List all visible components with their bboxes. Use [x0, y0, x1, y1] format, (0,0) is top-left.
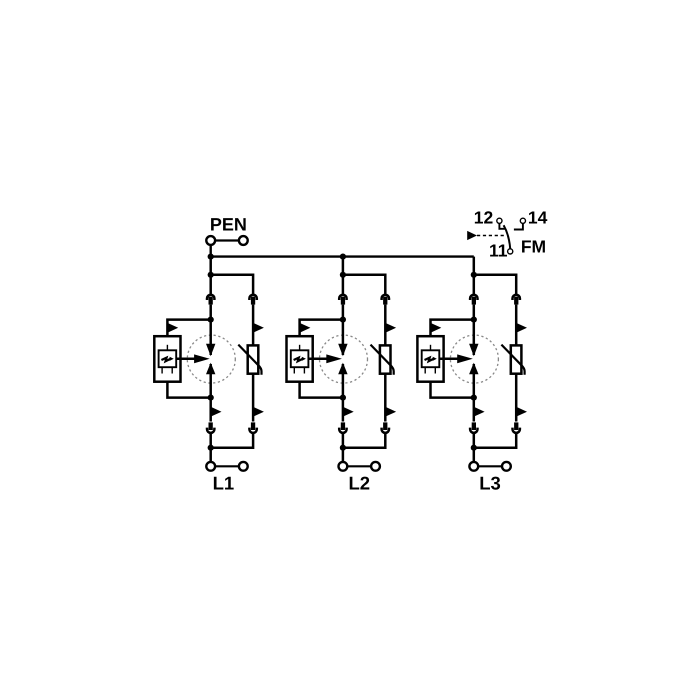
- wire: L3 main column pin to spark-gap node: [473, 305, 476, 320]
- wire: varistor column upper lead: [252, 305, 255, 346]
- FM contact point 11: [508, 249, 513, 254]
- junction: L3 sub-node: [471, 272, 477, 278]
- wire: L1 branch to varistor column: [211, 275, 253, 295]
- varistor (L2) diagonal stroke: [371, 345, 394, 375]
- wire: L1 drop from bus to sub-junction: [209, 257, 212, 275]
- junction: L1 sub-node: [208, 272, 214, 278]
- wire: L2 main column to top plug: [342, 275, 345, 295]
- wire: L1 main column to top plug: [209, 275, 212, 295]
- FM moving contact blade: [504, 225, 511, 248]
- wire: varistor column return to bottom junction: [474, 433, 516, 447]
- wire: L3 branch to varistor column: [474, 275, 516, 295]
- varistor (L3) body: [511, 345, 522, 373]
- junction: bus node L2 branch: [340, 254, 346, 260]
- terminal L3 (left circle): [469, 462, 478, 471]
- plug-in disconnect contact (bottom, L2 main column): [339, 422, 346, 433]
- lightning-bolt symbol in trigger element (L3): [425, 357, 437, 362]
- trigger element bottom leads: [425, 367, 435, 373]
- varistor (L1) diagonal stroke: [238, 345, 261, 375]
- wire: PEN bus: [211, 255, 474, 257]
- spark gap (L3): upper electrode triangle: [469, 344, 478, 357]
- wire: spark gap upper electrode lead: [473, 320, 476, 355]
- terminal L2 (right circle): [371, 462, 380, 471]
- junction: bus node L1 branch: [208, 254, 214, 260]
- wire: L3 main column to top plug: [473, 275, 476, 295]
- wire: L2 main column to bottom junction: [342, 433, 345, 447]
- plug-in disconnect contact (bottom, L3 main column): [470, 422, 477, 433]
- trigger element (L1) inner box: [159, 350, 177, 367]
- plug-in disconnect contact (top, L1 varistor column): [249, 295, 256, 305]
- trigger element bottom leads: [294, 367, 304, 373]
- svg-text:L1: L1: [213, 472, 235, 493]
- plug-in disconnect contact (bottom, L2 varistor column): [382, 422, 389, 433]
- lightning-bolt symbol in trigger element (L2): [294, 357, 306, 362]
- wire: L1 trigger loop top + left side: [167, 320, 210, 337]
- FM fixed contact 14 bracket: [514, 224, 523, 230]
- svg-text:11: 11: [489, 241, 508, 261]
- trigger element top lead: [430, 345, 432, 351]
- wire: varistor column return to bottom junction: [211, 433, 253, 447]
- FM fixed contact 12 bracket: [499, 224, 504, 229]
- spark gap (L2): lower electrode triangle: [338, 363, 347, 375]
- trigger arrow to spark gap (L1): [176, 354, 210, 363]
- wire: varistor column lower lead: [384, 374, 387, 422]
- junction: L1 trigger-loop bottom node: [208, 395, 214, 401]
- thermal disconnector flag (L1 main column, bottom): [211, 407, 222, 417]
- wire: L3 stem to terminal: [473, 448, 476, 462]
- thermal disconnector flag (L3 trigger loop): [431, 323, 442, 333]
- spark gap (L3): lower electrode triangle: [469, 363, 478, 375]
- wire: varistor column upper lead: [384, 305, 387, 346]
- thermal disconnector flag (L3 varistor column, bottom): [516, 407, 527, 417]
- thermal disconnector flag (L2 varistor column, top): [385, 323, 396, 333]
- wire: L2 drop from bus to sub-junction: [342, 257, 345, 275]
- thermal disconnector flag (L3 varistor column, top): [516, 323, 527, 333]
- plug-in disconnect contact (bottom, L1 main column): [207, 422, 214, 433]
- thermal disconnector flag (L1 trigger loop): [167, 323, 178, 333]
- plug-in disconnect contact (top, L2 main column): [339, 295, 346, 305]
- trigger element (L2) inner box: [291, 350, 309, 367]
- plug-in disconnect contact (top, L1 main column): [207, 295, 214, 305]
- svg-text:PEN: PEN: [210, 215, 247, 235]
- thermal disconnector flag (L2 main column, bottom): [343, 407, 354, 417]
- trigger arrow to spark gap (L3): [439, 354, 473, 363]
- wire: varistor column lower lead: [252, 374, 255, 422]
- trigger arrow to spark gap (L2): [308, 354, 342, 363]
- wire: spark gap lower electrode lead: [473, 364, 476, 398]
- trigger circuit box (L1) outer: [154, 336, 180, 382]
- thermal disconnector flag (L2 varistor column, bottom): [385, 407, 396, 417]
- varistor (L2) body: [380, 345, 391, 373]
- spark gap (L2): upper electrode triangle: [338, 344, 347, 357]
- terminal PEN (left circle): [206, 236, 215, 245]
- junction: L2 sub-node: [340, 272, 346, 278]
- svg-text:L2: L2: [349, 472, 371, 493]
- trigger element bottom leads: [162, 367, 172, 373]
- junction: L2 trigger-loop bottom node: [340, 395, 346, 401]
- wire: L3 drop from bus to sub-junction: [473, 257, 476, 275]
- trigger element top lead: [299, 345, 301, 351]
- trigger element top lead: [166, 345, 168, 351]
- trigger circuit box (L3) outer: [417, 336, 443, 382]
- junction: L1 trigger-loop top node: [208, 317, 214, 323]
- wire: PEN stem to bus: [209, 245, 211, 256]
- wire: terminal link L3: [478, 465, 501, 467]
- FM contact point 12: [497, 218, 502, 223]
- wire: L3 main column to bottom junction: [473, 433, 476, 447]
- thermal disconnector flag (L3 main column, bottom): [474, 407, 485, 417]
- thermal disconnector flag (L1 varistor column, top): [253, 323, 264, 333]
- junction: L1 bottom node: [208, 445, 214, 451]
- wire: L2 branch to varistor column: [343, 275, 385, 295]
- FM actuation arrow: [467, 231, 477, 240]
- wire: spark gap lower electrode lead: [209, 364, 212, 398]
- junction: L2 bottom node: [340, 445, 346, 451]
- trigger circuit box (L2) outer: [287, 336, 313, 382]
- plug-in disconnect contact (top, L2 varistor column): [382, 295, 389, 305]
- trigger element (L3) inner box: [422, 350, 440, 367]
- terminal PEN (right circle): [239, 236, 248, 245]
- wire: terminal link L2: [348, 465, 371, 467]
- varistor (L1) body: [248, 345, 259, 373]
- dashed circle around spark gap (L3): [450, 335, 498, 383]
- svg-text:FM: FM: [521, 236, 546, 256]
- FM contact point 14: [520, 218, 525, 223]
- wire: L2 trigger loop top + left side: [300, 320, 343, 337]
- dashed circle around spark gap (L1): [187, 335, 235, 383]
- wire: spark gap lower electrode lead: [342, 364, 345, 398]
- terminal L1 (left circle): [206, 462, 215, 471]
- wire: terminal link L1: [215, 465, 238, 467]
- FM actuation dashed line: [477, 235, 505, 237]
- wire: varistor column lower lead: [515, 374, 518, 422]
- wire: spark gap upper electrode lead: [209, 320, 212, 355]
- thermal disconnector flag (L2 trigger loop): [300, 323, 311, 333]
- varistor (L3) diagonal stroke: [501, 345, 524, 375]
- wire: L2 trigger loop bottom: [300, 382, 343, 398]
- thermal disconnector flag (L1 varistor column, bottom): [253, 407, 264, 417]
- junction: L3 trigger-loop top node: [471, 317, 477, 323]
- wire: L3 main column below spark gap: [473, 398, 476, 422]
- wire: L2 main column pin to spark-gap node: [342, 305, 345, 320]
- wire: L2 main column below spark gap: [342, 398, 345, 422]
- wire: L3 trigger loop top + left side: [431, 320, 474, 337]
- wire: L1 main column to bottom junction: [209, 433, 212, 447]
- wire: varistor column upper lead: [515, 305, 518, 346]
- spark gap (L1): upper electrode triangle: [206, 344, 215, 357]
- spark gap (L1): lower electrode triangle: [206, 363, 215, 375]
- terminal L2 (left circle): [339, 462, 348, 471]
- terminal L3 (right circle): [502, 462, 511, 471]
- dashed circle around spark gap (L2): [320, 335, 368, 383]
- plug-in disconnect contact (top, L3 varistor column): [513, 295, 520, 305]
- junction: L3 trigger-loop bottom node: [471, 395, 477, 401]
- junction: L2 trigger-loop top node: [340, 317, 346, 323]
- svg-text:12: 12: [474, 208, 494, 228]
- plug-in disconnect contact (bottom, L1 varistor column): [249, 422, 256, 433]
- wire: L3 trigger loop bottom: [431, 382, 474, 398]
- wire: L1 main column pin to spark-gap node: [209, 305, 212, 320]
- wire: L1 trigger loop bottom: [167, 382, 210, 398]
- wire: varistor column return to bottom junction: [343, 433, 385, 447]
- wire: PEN terminal link: [215, 239, 238, 241]
- lightning-bolt symbol in trigger element (L1): [161, 357, 173, 362]
- wire: L1 main column below spark gap: [209, 398, 212, 422]
- wire: spark gap upper electrode lead: [342, 320, 345, 355]
- svg-text:L3: L3: [479, 472, 501, 493]
- wire: L2 stem to terminal: [342, 448, 345, 462]
- junction: L3 bottom node: [471, 445, 477, 451]
- svg-text:14: 14: [528, 208, 548, 228]
- plug-in disconnect contact (bottom, L3 varistor column): [513, 422, 520, 433]
- terminal L1 (right circle): [239, 462, 248, 471]
- wire: L1 stem to terminal: [209, 448, 212, 462]
- plug-in disconnect contact (top, L3 main column): [470, 295, 477, 305]
